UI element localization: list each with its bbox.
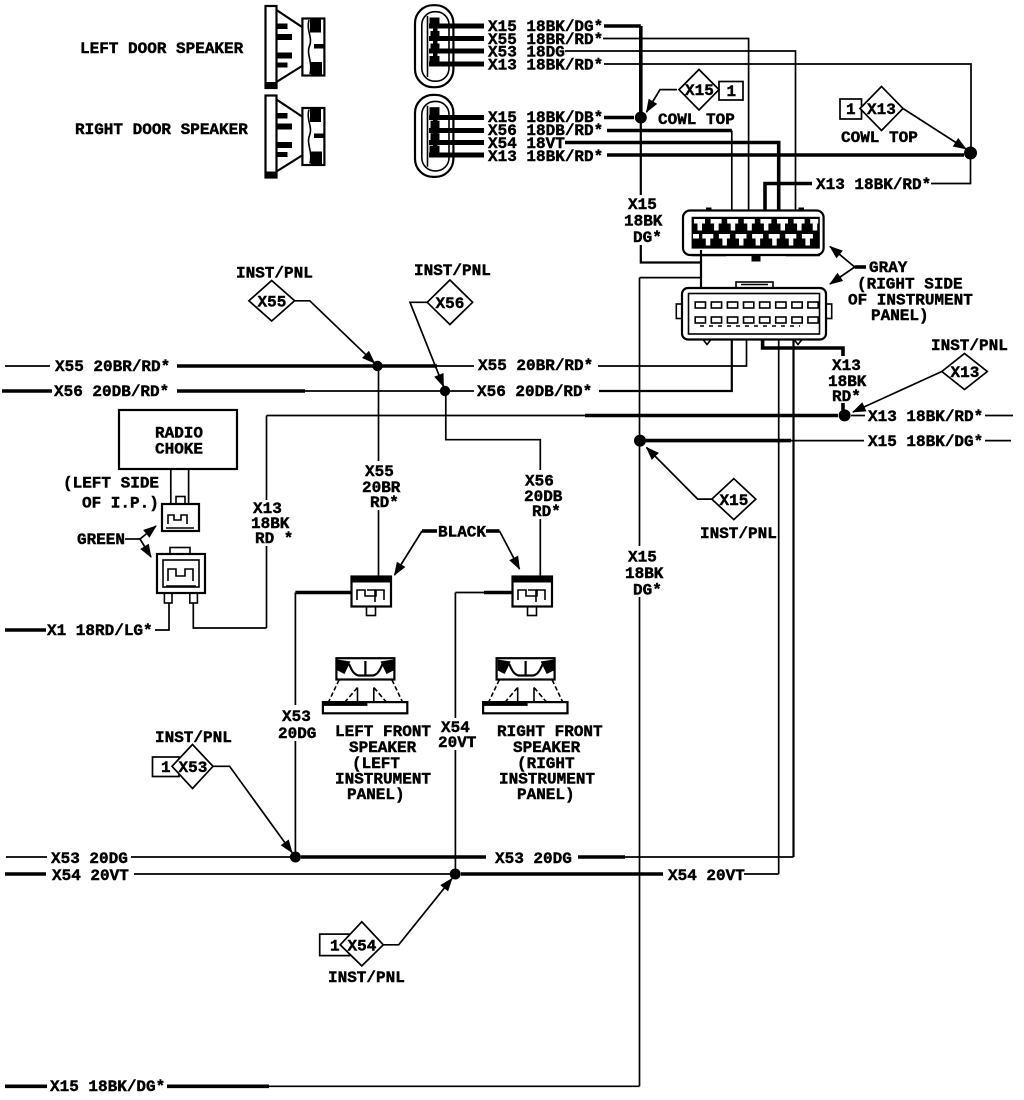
wire X13 row y415 <box>267 415 586 417</box>
wire X15 row conn2 <box>604 116 634 120</box>
label X54 20VT stack <box>435 718 474 750</box>
wire X56 row thin <box>305 390 440 392</box>
svg-text:X54 20VT: X54 20VT <box>52 867 129 885</box>
wire X55 row thin <box>437 365 474 367</box>
svg-text:PANEL): PANEL) <box>517 786 575 804</box>
svg-text:X15 18BK/DG*: X15 18BK/DG* <box>50 1078 165 1096</box>
wire leader X13 diamond to junction <box>853 372 942 413</box>
connector radio C2 16-way <box>676 282 831 345</box>
connector choke upper 2-way <box>162 497 199 532</box>
wire leader X55 diamond to junction <box>295 301 375 363</box>
svg-text:COWL TOP: COWL TOP <box>841 129 918 147</box>
wire leader X54 diamond to junction <box>383 879 452 945</box>
svg-text:X53 20DG: X53 20DG <box>51 850 128 868</box>
svg-text:X15: X15 <box>628 196 657 214</box>
wire X13 from choke connector <box>193 603 266 628</box>
svg-text:X13 18BK/RD*: X13 18BK/RD* <box>816 176 931 194</box>
svg-text:GREEN: GREEN <box>77 531 125 549</box>
wire X53 row3 <box>565 51 796 211</box>
connector diamond X54 with box 1 <box>320 934 350 956</box>
wire X13 right drop from C2 <box>763 340 843 411</box>
connector diamond X53 with box 1 <box>153 757 180 777</box>
wire X13 row conn2 <box>607 153 964 157</box>
wire X54 drop right <box>778 340 780 875</box>
wire X53 vertical <box>294 593 296 858</box>
connector radio C1 gray 14-way <box>683 208 824 262</box>
component RADIO CHOKE box <box>119 410 237 469</box>
connector diamond X15 cowl top with box 1 <box>719 82 743 101</box>
wire X54 bottom row <box>5 872 46 876</box>
wire X54 vertical <box>454 593 456 875</box>
wire leader GREEN fork <box>125 538 140 540</box>
wire X15 under C1 to C2 <box>641 118 701 263</box>
svg-text:X13: X13 <box>951 364 980 382</box>
svg-text:1: 1 <box>330 938 340 956</box>
svg-text:X53: X53 <box>282 708 311 726</box>
node junction X54 <box>450 869 461 880</box>
wire X56 row left <box>2 389 52 393</box>
wire X56 row thick <box>177 389 305 393</box>
wire X54 into right connector <box>455 592 484 594</box>
svg-text:LEFT DOOR SPEAKER: LEFT DOOR SPEAKER <box>80 40 244 58</box>
label X13 18BK RD* stack left <box>248 500 294 546</box>
svg-text:1: 1 <box>846 101 856 119</box>
connector left front speaker 2-way <box>352 577 392 616</box>
wire X15 bottom row <box>5 1085 47 1089</box>
svg-text:X15: X15 <box>720 492 749 510</box>
svg-text:X56: X56 <box>436 295 465 313</box>
connector left door speaker 4-way <box>415 5 453 87</box>
svg-text:RIGHT DOOR SPEAKER: RIGHT DOOR SPEAKER <box>75 121 248 139</box>
wire X56 row to C2 <box>599 340 732 392</box>
svg-text:X1 18RD/LG*: X1 18RD/LG* <box>47 622 153 640</box>
svg-text:X15 18BK/DG*: X15 18BK/DG* <box>868 433 983 451</box>
wire leader diamond X13 to junction <box>903 109 966 150</box>
node junction X56 <box>440 386 450 396</box>
wire X55 vertical to speaker connector <box>378 366 380 577</box>
wire X15 row1 to corner <box>604 24 641 28</box>
label X56 20DB RD* stack <box>520 470 564 519</box>
svg-text:20VT: 20VT <box>438 734 477 752</box>
svg-text:INST/PNL: INST/PNL <box>328 969 405 987</box>
label X15 18BK DG* stack top <box>622 195 661 245</box>
svg-text:X55 20BR/RD*: X55 20BR/RD* <box>478 357 593 375</box>
connector diamond X55 <box>249 281 295 322</box>
wire X56 row conn2 <box>607 129 732 133</box>
label X15 18BK DG* stack mid <box>621 546 663 597</box>
label X13 18BK RD* stack right <box>824 356 864 403</box>
svg-text:(LEFT SIDE: (LEFT SIDE <box>63 475 159 493</box>
wire leader X56 diamond to junction <box>410 302 444 386</box>
speaker RIGHT DOOR SPEAKER icon <box>266 96 325 178</box>
wire X15 row y440 <box>646 439 791 443</box>
svg-text:BLACK: BLACK <box>438 524 486 542</box>
svg-text:X55: X55 <box>258 294 287 312</box>
svg-text:X13 18BK/RD*: X13 18BK/RD* <box>488 148 603 166</box>
wire stubs connector 1 <box>429 24 484 29</box>
node junction X55 <box>372 361 382 371</box>
svg-text:INST/PNL: INST/PNL <box>700 525 777 543</box>
svg-text:DG*: DG* <box>633 229 662 247</box>
svg-text:RD *: RD * <box>255 530 293 548</box>
node junction X15 right <box>634 435 646 447</box>
connector diamond X15 inst/pnl <box>712 479 756 520</box>
svg-text:RD*: RD* <box>832 388 861 406</box>
wire X55 row2 <box>603 39 749 212</box>
wire X55 row left <box>5 365 50 367</box>
wire X54 row conn2 <box>565 143 779 212</box>
svg-text:PANEL): PANEL) <box>347 786 405 804</box>
label X55 20BR RD* stack <box>359 461 403 510</box>
wire leader diamond X15/1 to junction <box>647 90 678 112</box>
wire choke leads <box>170 469 172 504</box>
wire X53 drop right <box>792 340 794 858</box>
svg-text:X54 20VT: X54 20VT <box>668 867 745 885</box>
connector right front speaker 2-way <box>513 577 553 616</box>
svg-text:INST/PNL: INST/PNL <box>414 262 491 280</box>
svg-text:18BK: 18BK <box>624 213 663 231</box>
svg-text:PANEL): PANEL) <box>871 307 929 325</box>
speaker left front icon <box>323 658 407 713</box>
svg-text:18BK: 18BK <box>625 565 664 583</box>
svg-text:X13: X13 <box>867 101 896 119</box>
wire leader X15 diamond to junction <box>647 448 712 500</box>
svg-text:CHOKE: CHOKE <box>155 441 203 459</box>
svg-text:RD*: RD* <box>370 494 399 512</box>
svg-text:OF I.P.): OF I.P.) <box>82 495 159 513</box>
svg-text:X13 18BK/RD*: X13 18BK/RD* <box>868 408 983 426</box>
connector right door speaker 4-way <box>415 95 453 177</box>
svg-text:GRAY: GRAY <box>869 259 908 277</box>
speaker right front icon <box>483 658 567 713</box>
wire X55 row to C2 <box>598 340 747 367</box>
svg-text:DG*: DG* <box>633 582 662 600</box>
connector diamond X13 inst/pnl <box>942 354 988 390</box>
svg-text:X54: X54 <box>348 938 377 956</box>
svg-text:X55 20BR/RD*: X55 20BR/RD* <box>55 358 170 376</box>
svg-text:X56 20DB/RD*: X56 20DB/RD* <box>477 383 592 401</box>
wire X55 row thick <box>177 364 437 368</box>
wire leader GRAY bracket <box>855 265 866 269</box>
svg-text:INST/PNL: INST/PNL <box>931 337 1008 355</box>
connector diamond X13 cowl top with box 1 <box>840 99 862 119</box>
wire X56 jog to speaker connector <box>446 391 541 577</box>
wire leader X53 diamond to junction <box>213 766 292 852</box>
wire leader BLACK right arrow <box>486 529 500 533</box>
wire X15 branch to left vertical <box>640 277 702 279</box>
wire stubs connector 2 <box>429 115 484 120</box>
node junction X13 <box>839 409 851 421</box>
node junction X53 <box>290 852 301 863</box>
svg-text:X53 20DG: X53 20DG <box>495 850 572 868</box>
svg-text:INST/PNL: INST/PNL <box>236 265 313 283</box>
svg-text:X15: X15 <box>685 82 714 100</box>
node junction X13 cowl <box>964 147 977 160</box>
svg-text:1: 1 <box>161 759 171 777</box>
wire X13 junction down to label <box>931 153 971 184</box>
svg-text:X13 18BK/RD*: X13 18BK/RD* <box>488 57 603 75</box>
svg-text:1: 1 <box>727 83 737 101</box>
svg-text:20DG: 20DG <box>278 725 316 743</box>
wire X13 left vertical <box>266 416 268 629</box>
svg-text:X56 20DB/RD*: X56 20DB/RD* <box>54 383 169 401</box>
wire X53 bottom row <box>6 856 47 858</box>
wire X53 into left connector <box>295 591 351 595</box>
node junction X15 <box>635 112 647 124</box>
svg-text:X15: X15 <box>628 549 657 567</box>
connector choke lower 2-way <box>157 548 205 604</box>
svg-text:COWL TOP: COWL TOP <box>658 111 735 129</box>
speaker LEFT DOOR SPEAKER icon <box>266 6 325 88</box>
wire X15 main vertical <box>639 278 641 1087</box>
svg-text:RD*: RD* <box>532 503 561 521</box>
wire X13 row4 <box>604 64 971 148</box>
label X53 20DG stack <box>275 705 316 741</box>
svg-text:X53: X53 <box>179 759 208 777</box>
connector diamond X56 <box>427 280 472 325</box>
wire X15 vertical to junction <box>639 26 643 118</box>
wire X1 row <box>5 628 46 632</box>
wire leader BLACK left arrow <box>422 529 437 533</box>
wire X13 18BK/RD* label left segment <box>765 184 812 212</box>
